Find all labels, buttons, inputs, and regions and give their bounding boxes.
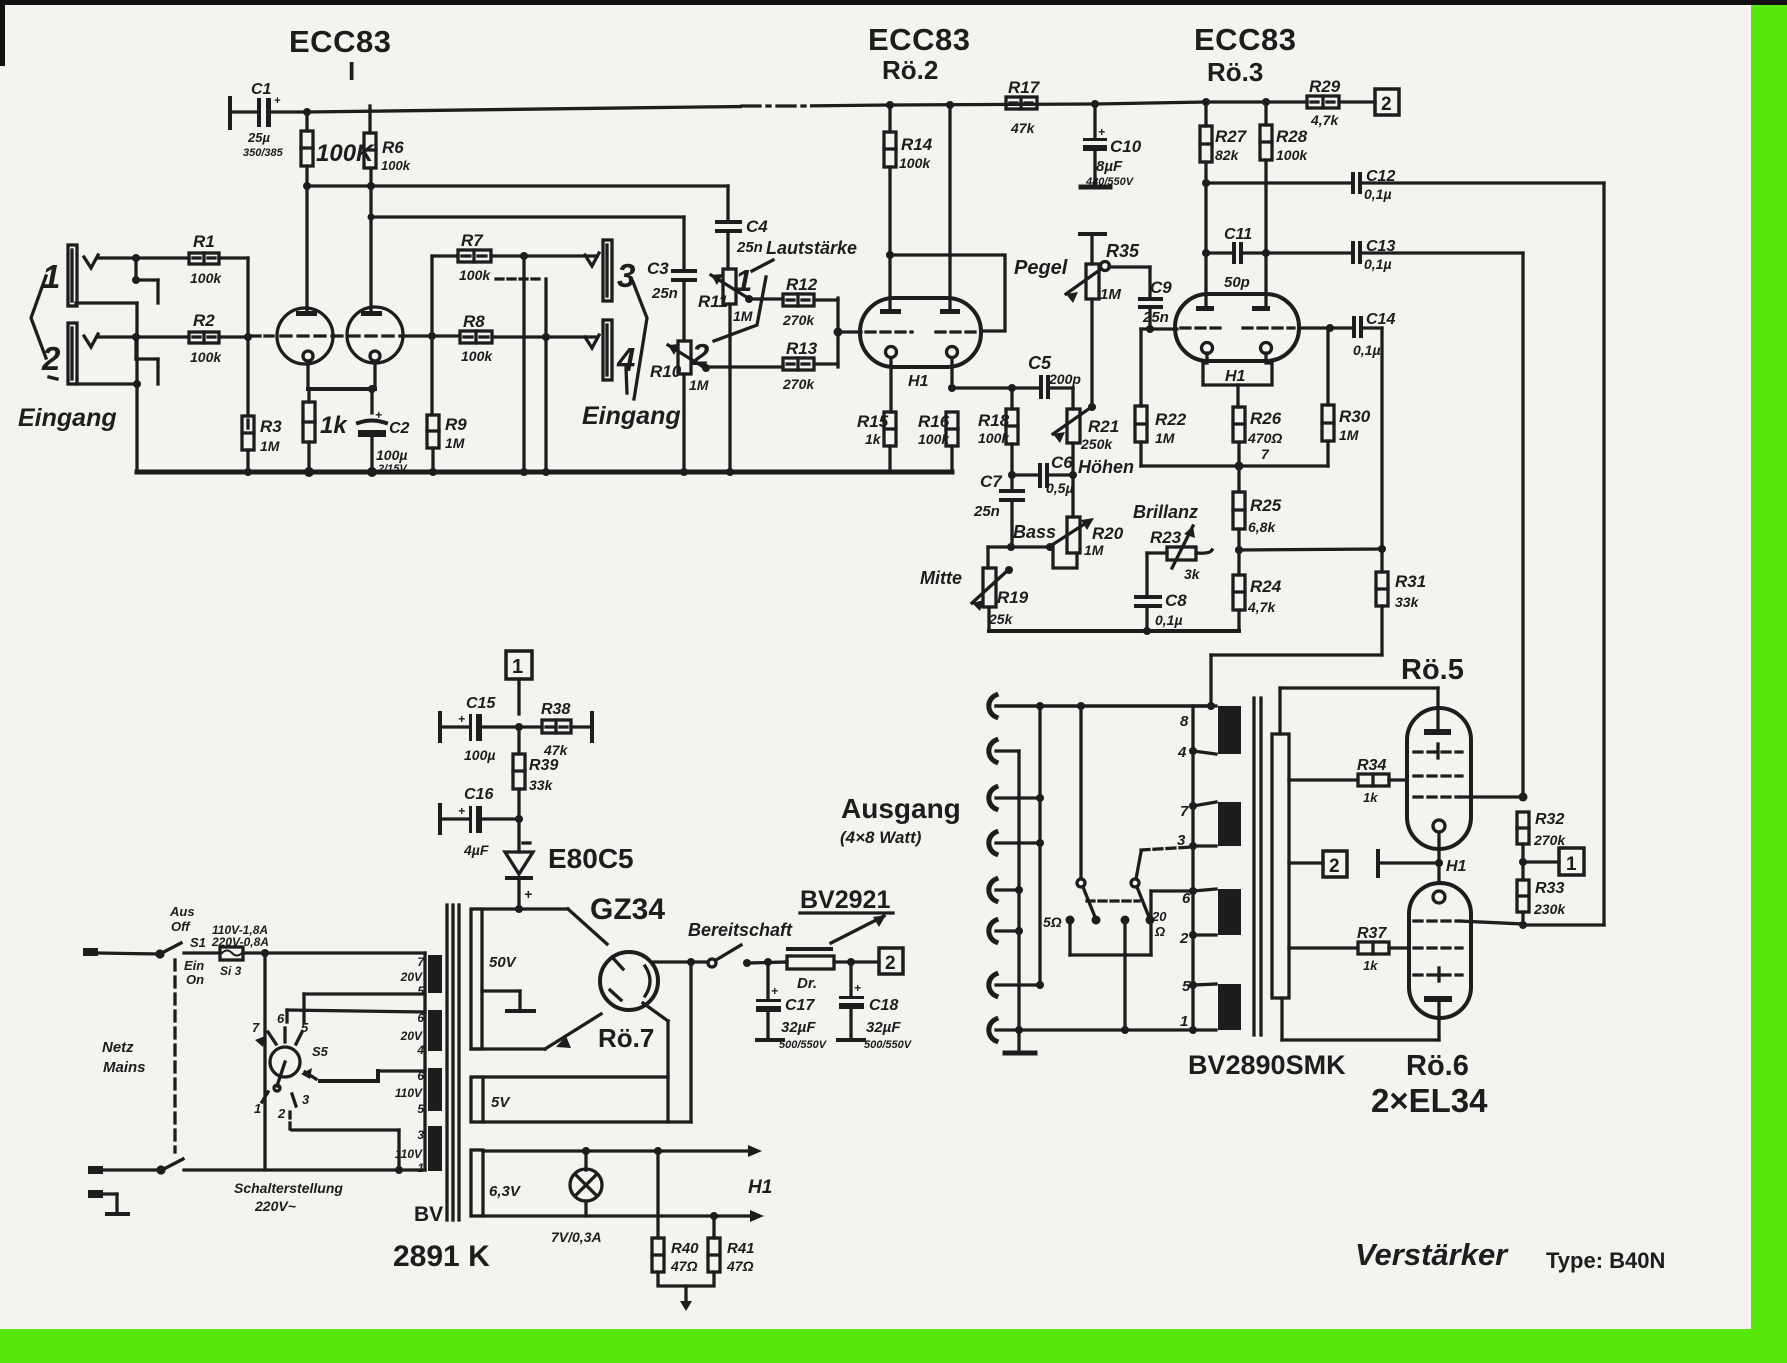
svg-text:R17: R17 xyxy=(1008,78,1041,97)
black border left notch xyxy=(0,0,5,66)
resistor R2 100k xyxy=(189,332,219,343)
svg-text:3: 3 xyxy=(617,257,635,294)
wire coupling y217 to C3 xyxy=(371,215,684,218)
svg-text:Eingang: Eingang xyxy=(582,402,681,430)
resistor R8 100k xyxy=(460,331,492,343)
svg-text:350/385: 350/385 xyxy=(243,147,284,159)
label 1 xyxy=(42,258,60,295)
wire grid V3a input xyxy=(1141,327,1177,330)
wire coupling y186 to C4 xyxy=(307,184,728,187)
svg-text:100k: 100k xyxy=(190,349,222,365)
svg-text:47Ω: 47Ω xyxy=(670,1258,698,1274)
svg-text:1M: 1M xyxy=(1084,542,1104,558)
resistor R22 1M xyxy=(1135,329,1147,466)
label Hoehen xyxy=(1078,457,1134,477)
wire HV to GZ34 anode1 xyxy=(568,909,607,944)
label 2 xyxy=(41,340,61,379)
wire link to pin3 xyxy=(1136,847,1192,879)
svg-text:C13: C13 xyxy=(1366,238,1395,255)
svg-text:1: 1 xyxy=(1566,854,1577,875)
wire selector tap 5 xyxy=(304,994,425,1023)
wire R7 to jack3 xyxy=(491,252,597,260)
tube V2 ECC83 envelope xyxy=(860,298,981,367)
svg-text:2: 2 xyxy=(41,340,61,377)
svg-text:R10: R10 xyxy=(650,362,682,381)
svg-text:33k: 33k xyxy=(529,777,554,793)
svg-text:R32: R32 xyxy=(1535,811,1564,828)
svg-text:R39: R39 xyxy=(529,757,558,774)
svg-text:C16: C16 xyxy=(464,786,493,803)
resistor R4 1k cathode xyxy=(303,402,315,472)
resistor R31 33k xyxy=(1376,549,1388,655)
capacitor C10 8µF xyxy=(1081,104,1110,187)
svg-text:R16: R16 xyxy=(918,412,950,431)
svg-text:20: 20 xyxy=(1151,909,1167,924)
capacitor C17 32µF xyxy=(756,962,783,1040)
label Brillanz xyxy=(1133,502,1198,522)
potentiometer R23 3k xyxy=(1147,526,1212,568)
svg-text:H1: H1 xyxy=(1225,368,1246,385)
mains terminal E xyxy=(88,1190,103,1198)
svg-text:BV2890SMK: BV2890SMK xyxy=(1188,1050,1346,1080)
ground output bus xyxy=(1005,1051,1035,1056)
tube V3 ECC83 envelope xyxy=(1175,294,1299,361)
tube triode V1a xyxy=(277,308,333,364)
resistor R25 6,8k xyxy=(1233,492,1245,550)
potentiometer R20 1M Bass xyxy=(1046,517,1094,553)
wire humdinger ground xyxy=(658,1272,714,1311)
suppressor Rö.6 xyxy=(1414,968,1462,981)
svg-text:7V/0,3A: 7V/0,3A xyxy=(551,1229,602,1245)
wire impedance link xyxy=(1070,891,1193,955)
resistor R14 100k xyxy=(884,105,896,167)
svg-text:0,1µ: 0,1µ xyxy=(1353,342,1381,358)
label GZ34 xyxy=(590,893,665,926)
resistor R24 4,7k xyxy=(1233,550,1245,631)
terminal 2 (top) xyxy=(1375,89,1399,115)
control grid Rö.5 xyxy=(1414,793,1528,802)
pilot lamp xyxy=(570,1151,602,1216)
wire arc6 xyxy=(996,927,1023,935)
svg-text:1M: 1M xyxy=(689,377,709,393)
pin label 7 xyxy=(1261,446,1270,462)
BV2921 underline and arrow xyxy=(800,913,893,943)
label Aus Off S1 Ein On xyxy=(169,904,206,987)
wire bass node xyxy=(988,543,1077,568)
cathode V1b xyxy=(370,351,380,389)
svg-text:R40: R40 xyxy=(671,1240,699,1257)
svg-text:250k: 250k xyxy=(1080,436,1113,452)
svg-text:2: 2 xyxy=(885,953,896,974)
label Lautstaerke xyxy=(766,238,857,258)
svg-text:1: 1 xyxy=(254,1101,261,1116)
label Verstärker xyxy=(1355,1237,1665,1273)
svg-text:500/550V: 500/550V xyxy=(779,1039,828,1051)
label Schalterstellung 220V xyxy=(234,1180,343,1214)
svg-text:R18: R18 xyxy=(978,411,1010,430)
resistor R38 47k xyxy=(542,713,592,741)
svg-text:Rö.7: Rö.7 xyxy=(598,1023,654,1053)
capacitor C5 200p xyxy=(1039,375,1073,409)
anode bar Rö.5 xyxy=(1424,729,1451,735)
cathode V3a xyxy=(1202,343,1213,354)
output transformer primary winding 4 xyxy=(1218,984,1241,1030)
wire R10 wiper to R13 xyxy=(706,365,783,368)
svg-text:47k: 47k xyxy=(1010,120,1036,136)
svg-text:270k: 270k xyxy=(1533,832,1566,848)
svg-text:Rö.5: Rö.5 xyxy=(1401,654,1464,686)
svg-text:Ausgang: Ausgang xyxy=(841,793,961,824)
capacitor C14 0,1µ xyxy=(1352,316,1382,548)
svg-text:4µF: 4µF xyxy=(463,842,489,858)
wire R27 to grid V3a xyxy=(1202,162,1210,308)
wire Rö.6 anode to secondary bottom xyxy=(1282,998,1439,1040)
capacitor C2 100µ xyxy=(358,421,386,473)
svg-text:6,8k: 6,8k xyxy=(1248,519,1276,535)
svg-text:1M: 1M xyxy=(733,308,753,324)
svg-text:R35: R35 xyxy=(1106,241,1140,261)
svg-text:R33: R33 xyxy=(1535,880,1564,897)
power transformer 6,3V winding xyxy=(471,1150,483,1216)
svg-text:R34: R34 xyxy=(1357,757,1386,774)
fuse Si3 xyxy=(184,947,425,960)
svg-text:R15: R15 xyxy=(857,412,889,431)
wire arc8 to pin1 xyxy=(996,1026,1193,1034)
capacitor C6 0,5µ xyxy=(1012,463,1073,488)
wire R33 to C12 line xyxy=(1519,921,1604,929)
wire selector tap 6 xyxy=(287,1010,425,1022)
label tube1: ECC83 I xyxy=(289,24,391,86)
wire R12/R13 join to tube2 grid xyxy=(814,298,861,367)
primary winding block 3 xyxy=(428,1068,442,1111)
svg-text:Rö.2: Rö.2 xyxy=(882,55,938,85)
label 3 xyxy=(617,257,635,294)
wire tube1 grid2 to R8 xyxy=(403,332,460,340)
svg-text:C2: C2 xyxy=(389,420,410,437)
svg-text:100k: 100k xyxy=(461,348,493,364)
svg-text:C4: C4 xyxy=(746,217,768,236)
cathode V1a xyxy=(303,351,313,389)
svg-text:5Ω: 5Ω xyxy=(1043,914,1062,930)
svg-text:R23: R23 xyxy=(1150,528,1182,547)
wire arc3 xyxy=(996,794,1044,802)
svg-text:R3: R3 xyxy=(260,417,282,436)
svg-text:C18: C18 xyxy=(869,997,898,1014)
svg-text:ECC83: ECC83 xyxy=(868,22,970,57)
wire jack1 switch contact xyxy=(76,258,158,303)
wire heater top to H1 xyxy=(483,1145,762,1157)
wire anode column right triode xyxy=(367,168,375,314)
resistor R15 1k xyxy=(884,412,896,472)
svg-text:50p: 50p xyxy=(1224,274,1250,291)
label BV 2891 K xyxy=(393,1203,490,1273)
svg-text:R20: R20 xyxy=(1092,524,1124,543)
resistor R1 100k xyxy=(189,253,219,264)
svg-text:100k: 100k xyxy=(918,431,950,447)
screen grid Rö.6 xyxy=(1414,946,1462,949)
svg-text:H1: H1 xyxy=(1446,858,1467,875)
pointer lines volume coupling xyxy=(714,260,773,341)
input jack 3 xyxy=(585,240,612,301)
voltage selector link xyxy=(263,953,266,1170)
svg-text:33k: 33k xyxy=(1395,594,1420,610)
power transformer 5V winding xyxy=(471,1077,691,1122)
svg-text:1k: 1k xyxy=(1363,958,1378,973)
wire R28 to grid V3b xyxy=(1262,160,1270,308)
terminal 2 (power) xyxy=(879,948,903,974)
svg-text:Lautstärke: Lautstärke xyxy=(766,238,857,258)
wire jack4 drop to ground xyxy=(496,279,546,472)
svg-text:4: 4 xyxy=(416,1043,424,1057)
svg-text:+: + xyxy=(854,981,861,995)
label Ausgang xyxy=(840,793,961,847)
svg-text:R37: R37 xyxy=(1357,925,1387,942)
svg-text:H1: H1 xyxy=(748,1177,772,1198)
capacitor C3 25n xyxy=(671,217,697,341)
svg-text:R6: R6 xyxy=(382,138,404,157)
svg-text:+: + xyxy=(458,712,465,726)
svg-text:R25: R25 xyxy=(1250,496,1282,515)
svg-text:S5: S5 xyxy=(312,1044,329,1059)
svg-text:2: 2 xyxy=(277,1106,286,1121)
black border top xyxy=(0,0,1787,5)
mains terminal L xyxy=(83,948,98,956)
primary tap labels xyxy=(395,955,425,1175)
wire cathode V2b to C5 node xyxy=(948,384,1039,392)
HV center tap ground xyxy=(482,991,534,1011)
svg-text:220V-0,8A: 220V-0,8A xyxy=(211,935,269,949)
primary winding block 4 xyxy=(428,1126,442,1171)
svg-text:82k: 82k xyxy=(1215,147,1240,163)
capacitor C15 100µ xyxy=(440,713,542,741)
svg-text:R7: R7 xyxy=(461,231,484,250)
svg-text:2: 2 xyxy=(1329,856,1340,877)
label Pegel xyxy=(1014,257,1068,279)
svg-text:C7: C7 xyxy=(980,472,1003,491)
svg-text:0,1µ: 0,1µ xyxy=(1364,186,1392,202)
label Mitte xyxy=(920,568,962,588)
svg-text:1: 1 xyxy=(512,656,523,678)
tube Rö.6 EL34 envelope xyxy=(1409,883,1471,1018)
output bus A xyxy=(1038,706,1041,985)
potentiometer R19 25k Mitte xyxy=(972,566,1013,631)
label Bereitschaft xyxy=(688,920,793,940)
svg-text:1: 1 xyxy=(417,1161,424,1175)
speaker terminal arc 5 xyxy=(989,879,996,901)
svg-text:32µF: 32µF xyxy=(866,1019,901,1036)
tube triode V1b xyxy=(347,307,403,363)
wire jack2 switch contact xyxy=(76,337,158,388)
wire C12 drop xyxy=(1602,183,1605,925)
svg-text:100k: 100k xyxy=(381,158,411,173)
svg-text:2: 2 xyxy=(1179,930,1189,947)
output bus B xyxy=(1017,751,1020,1053)
wire feedback node y550 xyxy=(1235,545,1386,554)
svg-text:R1: R1 xyxy=(193,232,215,251)
svg-text:32µF: 32µF xyxy=(781,1019,816,1036)
wire selector tap right xyxy=(320,1071,425,1081)
svg-text:25n: 25n xyxy=(736,239,763,256)
diode E80C5 xyxy=(505,819,533,909)
heater box H1 tube3 xyxy=(1203,353,1272,407)
input jack 2 xyxy=(68,323,98,384)
speaker terminal arc 6 xyxy=(989,920,996,942)
wire arc2 xyxy=(996,749,1019,752)
power transformer primary column xyxy=(423,953,426,1170)
resistor R41 47 ohm xyxy=(708,1216,720,1272)
svg-text:+: + xyxy=(458,804,465,818)
svg-text:C15: C15 xyxy=(466,695,496,712)
svg-text:4: 4 xyxy=(1177,744,1187,761)
svg-text:E80C5: E80C5 xyxy=(548,843,634,874)
svg-text:20V: 20V xyxy=(400,970,423,984)
svg-text:110V: 110V xyxy=(395,1086,423,1100)
svg-text:Off: Off xyxy=(171,919,191,934)
speaker terminal arc 4 xyxy=(989,832,996,854)
svg-text:Schalterstellung: Schalterstellung xyxy=(234,1180,343,1196)
svg-text:200p: 200p xyxy=(1048,371,1081,387)
label 20 ohm xyxy=(1151,909,1167,939)
output transformer primary winding 2 xyxy=(1218,802,1241,846)
screen grid Rö.5 xyxy=(1414,750,1462,753)
mains terminal N xyxy=(88,1166,103,1174)
label E80C5 xyxy=(548,843,634,874)
svg-text:25n: 25n xyxy=(1142,309,1169,326)
anode bars tube3 xyxy=(1196,306,1270,311)
wire C13 drop xyxy=(1521,253,1524,797)
svg-text:2891 K: 2891 K xyxy=(393,1240,490,1273)
green border right xyxy=(1751,0,1787,1363)
output transformer primary winding 1 xyxy=(1218,706,1241,754)
svg-text:C10: C10 xyxy=(1110,137,1142,156)
primary pin column xyxy=(1191,706,1194,1030)
heater tap bar H1 xyxy=(1378,851,1439,876)
earth ground symbol xyxy=(103,1194,128,1214)
wire anode box to grid V2b xyxy=(890,255,1005,331)
label H1 tube2 xyxy=(908,373,929,390)
anode bar Rö.6 xyxy=(1424,996,1452,1040)
svg-text:R12: R12 xyxy=(786,275,818,294)
resistor R34 1k xyxy=(1289,774,1407,786)
wire node to R7 xyxy=(432,256,458,336)
svg-text:5: 5 xyxy=(417,984,424,998)
cathode V2b xyxy=(947,347,958,389)
svg-text:47Ω: 47Ω xyxy=(726,1258,754,1274)
selector strokes xyxy=(626,282,647,399)
svg-text:+: + xyxy=(524,886,532,902)
svg-text:Eingang: Eingang xyxy=(18,404,117,432)
grid lines tube2 xyxy=(866,330,977,333)
wire secondary top to Rö.5 anode xyxy=(1280,688,1438,734)
svg-text:R14: R14 xyxy=(901,135,933,154)
label Rö.7 xyxy=(598,1023,654,1053)
svg-text:R29: R29 xyxy=(1309,77,1341,96)
pin junction dots xyxy=(1189,747,1197,1034)
resistor R13 270k xyxy=(783,358,814,370)
wire R31 to output transformer B+ xyxy=(1211,655,1382,707)
svg-text:0,1µ: 0,1µ xyxy=(1364,256,1392,272)
svg-text:Netz: Netz xyxy=(102,1039,134,1056)
output transformer primary winding 3 xyxy=(1218,889,1241,935)
pin number labels xyxy=(1177,713,1191,1030)
primary winding block 2 xyxy=(428,1010,442,1051)
svg-text:R31: R31 xyxy=(1395,572,1426,591)
svg-text:50V: 50V xyxy=(489,954,518,971)
svg-text:C14: C14 xyxy=(1366,311,1395,328)
label 2xEL34 xyxy=(1371,1082,1488,1119)
resistor R7 100k xyxy=(458,250,491,262)
input bracket xyxy=(31,276,46,358)
svg-text:R30: R30 xyxy=(1339,407,1371,426)
svg-text:Höhen: Höhen xyxy=(1078,457,1134,477)
capacitor C8 0,1µ xyxy=(1134,553,1162,631)
svg-text:100k: 100k xyxy=(899,155,931,171)
svg-text:Brillanz: Brillanz xyxy=(1133,502,1198,522)
rectifier GZ34 Rö.7 xyxy=(600,952,658,1010)
capacitor C4 25n xyxy=(715,186,742,269)
svg-text:25n: 25n xyxy=(973,503,1000,520)
svg-text:1M: 1M xyxy=(1155,430,1175,446)
ground bus junctions xyxy=(244,467,734,477)
switch S1 lower xyxy=(102,1159,425,1174)
rail dash-dot section xyxy=(742,101,810,111)
wire heater bottom to H1 xyxy=(483,1210,764,1222)
svg-text:+: + xyxy=(771,984,778,998)
wire cathode bias bus y466 xyxy=(1141,462,1328,471)
svg-text:6: 6 xyxy=(1182,890,1191,907)
output transformer core xyxy=(1254,698,1261,1035)
wire R1/R2 to grid node xyxy=(219,258,277,341)
label 5 ohm xyxy=(1043,914,1062,930)
svg-text:Ein: Ein xyxy=(184,958,204,973)
svg-text:0,5µ: 0,5µ xyxy=(1046,480,1074,496)
resistor R29 47k xyxy=(1307,96,1339,108)
svg-text:R13: R13 xyxy=(786,339,818,358)
wire R14 to anode V2a xyxy=(886,167,894,311)
svg-text:Bass: Bass xyxy=(1013,522,1056,542)
svg-text:100k: 100k xyxy=(978,430,1010,446)
svg-text:R9: R9 xyxy=(445,415,467,434)
potentiometer R10 1M xyxy=(668,341,710,472)
svg-text:470Ω: 470Ω xyxy=(1247,430,1282,446)
svg-text:C1: C1 xyxy=(251,81,272,98)
speaker terminal arc 1 xyxy=(989,695,996,717)
svg-text:C11: C11 xyxy=(1224,226,1252,243)
wire arc4 xyxy=(996,839,1044,847)
svg-text:C17: C17 xyxy=(785,997,815,1014)
terminal 1 (output stage) xyxy=(1523,848,1584,875)
grid lines tube3 xyxy=(1181,326,1294,329)
wire jack2 to R2 xyxy=(98,333,189,341)
svg-text:1M: 1M xyxy=(1339,427,1359,443)
svg-text:6: 6 xyxy=(277,1011,285,1026)
resistor R16 100k xyxy=(946,412,958,472)
wire GZ34 cathode out xyxy=(652,958,708,966)
svg-text:8: 8 xyxy=(1180,713,1189,730)
wire arc5 xyxy=(996,886,1023,894)
svg-text:BV2921: BV2921 xyxy=(800,886,890,914)
svg-text:R8: R8 xyxy=(463,312,485,331)
svg-text:ECC83: ECC83 xyxy=(289,24,391,59)
svg-text:4,7k: 4,7k xyxy=(1247,599,1276,615)
speaker terminal arc 3 xyxy=(989,787,996,809)
svg-text:47k: 47k xyxy=(543,742,569,758)
resistor R39 33k xyxy=(513,727,525,819)
svg-text:500/550V: 500/550V xyxy=(864,1039,913,1051)
svg-text:270k: 270k xyxy=(782,376,815,392)
voltage selector S5 xyxy=(255,1028,316,1106)
svg-text:20V: 20V xyxy=(400,1029,423,1043)
